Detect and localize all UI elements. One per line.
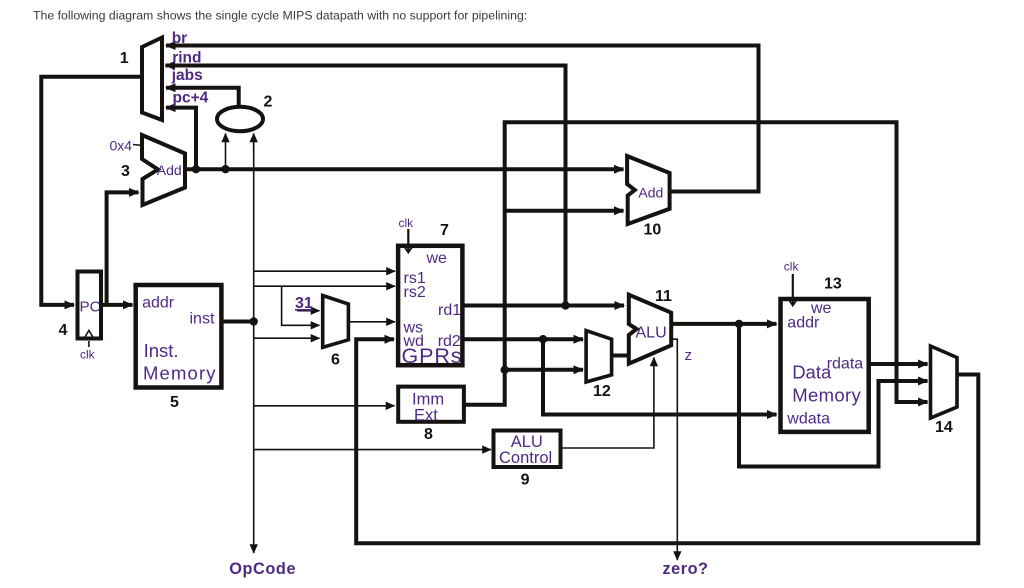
wire rs2 field branch to mux6 input 1	[282, 286, 320, 325]
wire ALU output to Data Memory addr	[671, 322, 776, 326]
svg-text:14: 14	[935, 419, 953, 436]
svg-text:1: 1	[120, 50, 129, 67]
svg-text:0x4: 0x4	[110, 138, 133, 154]
svg-text:6: 6	[331, 352, 340, 369]
svg-text:PC: PC	[80, 299, 101, 316]
svg-text:rdata: rdata	[827, 356, 864, 373]
svg-text:wdata: wdata	[786, 411, 830, 428]
svg-text:The following diagram shows th: The following diagram shows the single c…	[33, 9, 527, 23]
svg-text:inst: inst	[190, 310, 215, 327]
instruction memory 5	[136, 285, 222, 388]
concatenator 2	[217, 107, 263, 131]
wire rind (rd1 up to mux1 input rind)	[166, 66, 566, 306]
svg-text:31: 31	[295, 295, 313, 312]
svg-text:ALU: ALU	[636, 325, 667, 342]
wire mux12 output to ALU input B	[612, 354, 631, 358]
svg-text:9: 9	[521, 472, 530, 489]
wire bus to GPRs rs2	[254, 285, 395, 287]
clock input of Data Memory	[787, 274, 798, 306]
wire bus to mux6 input 2	[254, 337, 320, 339]
junction pc+4 branch on Add3 output	[192, 165, 200, 173]
wire ALU output feedback to mux14 middle input	[739, 324, 928, 467]
svg-text:Control: Control	[499, 449, 552, 467]
svg-text:clk: clk	[784, 260, 800, 274]
ALU 11	[629, 295, 671, 364]
svg-text:Data: Data	[792, 361, 832, 382]
wire rdata to mux14 top input	[869, 362, 928, 366]
wire mux14 output writeback to GPRs wd	[356, 339, 978, 543]
wire br (Add10 output to mux1 input br)	[166, 46, 759, 192]
junction concat feed on Add3 output	[221, 165, 229, 173]
svg-text:Inst.: Inst.	[144, 340, 179, 361]
wire instruction bus vertical (concat down to OpCode)	[253, 134, 255, 553]
svg-text:7: 7	[440, 222, 449, 239]
wire rd2 branch to Data Memory wdata	[543, 339, 777, 414]
0x4 constant stub into Add3	[133, 145, 143, 146]
wire ALU Control output to ALU control input	[560, 358, 654, 449]
svg-text:13: 13	[824, 276, 842, 293]
wire imm: Imm Ext output up	[464, 122, 928, 404]
mux 1 (next-PC select)	[142, 38, 162, 121]
wire imm branch to mux12 bottom input	[505, 368, 583, 372]
svg-text:4: 4	[59, 322, 68, 339]
wire rd2 to mux12 top input	[462, 337, 583, 341]
svg-text:8: 8	[424, 426, 433, 443]
wire instruction bus arrow into concatenator	[253, 134, 255, 151]
adder Add 10	[627, 156, 670, 224]
mux 6 (ws select)	[323, 296, 349, 348]
svg-text:5: 5	[170, 394, 179, 411]
svg-text:Add: Add	[157, 162, 182, 178]
wire imm branch to Add10 bottom input	[505, 209, 624, 213]
wire rd1 to ALU input A	[462, 304, 624, 308]
wire pc+4 up into concatenator left	[225, 134, 227, 170]
svg-text:z: z	[685, 347, 693, 364]
svg-text:10: 10	[644, 222, 662, 239]
wire mux1 output to PC input	[41, 77, 142, 305]
svg-text:br: br	[172, 30, 188, 47]
junction wdata branch on rd2	[539, 335, 547, 343]
sign extender Imm Ext 8	[398, 387, 464, 422]
mux 12 (ALU operand B select)	[586, 331, 612, 382]
svg-text:Add: Add	[638, 185, 663, 201]
wire ALU z output to zero?	[672, 339, 678, 560]
junction inst output on bus	[250, 317, 258, 325]
svg-text:2: 2	[264, 94, 273, 111]
adder Add 3	[142, 135, 185, 205]
wire bus to ALU Control input	[254, 449, 491, 451]
mux 14 (writeback select)	[931, 346, 958, 418]
svg-text:zero?: zero?	[663, 560, 709, 578]
svg-text:3: 3	[121, 163, 130, 180]
svg-text:we: we	[426, 250, 448, 267]
svg-text:addr: addr	[142, 294, 175, 311]
svg-text:11: 11	[655, 288, 672, 305]
clock input of PC	[84, 331, 94, 348]
wire bus to Imm Ext input	[254, 405, 395, 407]
svg-text:clk: clk	[399, 216, 415, 230]
svg-text:Ext: Ext	[414, 407, 438, 425]
wire PC output to Inst Memory addr	[100, 303, 133, 307]
svg-text:rind: rind	[172, 50, 201, 67]
clock input of GPRs	[403, 229, 414, 253]
svg-text:rd1: rd1	[438, 302, 461, 319]
wire bus to GPRs rs1	[254, 270, 395, 272]
ALU Control 9	[494, 431, 561, 468]
svg-text:OpCode: OpCode	[229, 560, 295, 578]
wire mux6 output to GPRs ws	[348, 321, 395, 323]
register PC 4	[78, 272, 102, 339]
wire pc+4 (Add3 output up to mux1 input pc+4)	[166, 108, 196, 170]
junction ALU output feedback	[735, 320, 743, 328]
svg-text:pc+4: pc+4	[173, 90, 209, 107]
svg-text:Memory: Memory	[792, 385, 861, 406]
svg-text:jabs: jabs	[171, 67, 203, 84]
wire 31 to mux6 input 0	[297, 310, 320, 312]
svg-text:clk: clk	[80, 348, 96, 362]
svg-text:addr: addr	[787, 314, 820, 331]
junction imm branch to mux12	[501, 366, 509, 374]
wire inst output of Inst Memory to bus	[221, 320, 253, 324]
wire PC output up to Add3 bottom input	[107, 192, 139, 305]
wire jabs (concatenator to mux1 input jabs)	[166, 88, 239, 106]
svg-text:GPRs: GPRs	[402, 344, 462, 368]
junction rind branch on rd1	[561, 301, 569, 309]
wire Add3 output (pc+4) to Add10 top input	[185, 167, 624, 171]
register file GPRs 7	[398, 246, 462, 365]
svg-text:12: 12	[593, 383, 611, 400]
svg-text:rs2: rs2	[404, 284, 426, 301]
data memory 13	[781, 299, 869, 432]
